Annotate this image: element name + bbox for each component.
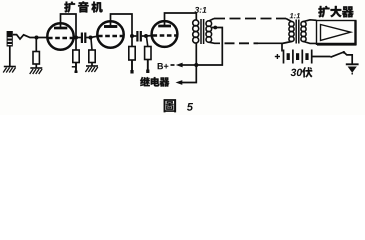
transformer T1 secondary winding xyxy=(206,21,212,42)
transformer T2 primary winding xyxy=(289,21,294,41)
wire T1 secondary bottom to line (start) xyxy=(209,42,220,43)
transformer T2 secondary winding xyxy=(301,21,306,41)
capacitor C1 coupling xyxy=(76,33,91,44)
ground (R3) xyxy=(85,66,98,72)
ground (input) xyxy=(3,67,16,73)
resistor R5 grid leak V3 xyxy=(145,37,151,73)
node T1 secondary tap xyxy=(213,26,217,30)
microphone input pickup xyxy=(7,31,13,47)
wire T2 secondary to amplifier box xyxy=(304,20,317,22)
node grid junction V3 xyxy=(144,34,148,38)
battery B1 cells xyxy=(284,50,312,64)
wire B+ node down to relay arrow xyxy=(182,65,196,83)
wire switch to ground xyxy=(344,53,352,64)
wire plate V1 to coupling node xyxy=(61,14,77,38)
resistor R1 grid leak V1 xyxy=(33,38,39,69)
resistor R3 grid leak V2 xyxy=(89,39,95,67)
node grid junction V2 xyxy=(89,36,93,40)
wire tap to B+ node xyxy=(196,28,222,66)
node B+ junction xyxy=(194,63,198,67)
label 30伏 xyxy=(291,67,313,77)
tube V1 triode xyxy=(47,23,73,49)
amplifier box U1 xyxy=(317,21,357,46)
dashed long line (top conductor) xyxy=(214,18,286,20)
wire input to grid of V1 xyxy=(13,35,48,39)
ground (earth, right) xyxy=(346,64,359,74)
switch S1 blade xyxy=(331,52,344,57)
tube V3 triode xyxy=(152,21,178,47)
caption 圖 5 xyxy=(164,99,193,112)
wire T1 secondary top to line (start) xyxy=(209,19,214,22)
label B+ xyxy=(158,63,169,69)
label 3:1 (T1 ratio) xyxy=(195,7,207,13)
wire to grid V3 xyxy=(146,35,153,38)
dashed long line (bottom conductor) xyxy=(225,42,259,44)
wire T1 primary bottom to B+ node xyxy=(195,43,197,65)
node plate V2 xyxy=(130,34,134,38)
ground (R1) xyxy=(30,68,43,74)
wire T2 primary bottom to battery + xyxy=(282,42,292,52)
arrow to B+ label xyxy=(182,64,196,66)
wire plate V2 to coupling node xyxy=(111,14,133,36)
resistor R2 plate load V1 xyxy=(72,38,79,74)
resistor R4 plate load V2 xyxy=(129,36,135,74)
wire microphone to ground xyxy=(9,47,11,67)
label 扩音机 (preamp unit) xyxy=(64,1,102,12)
battery B1 + sign xyxy=(275,54,280,59)
amplifier triangle symbol xyxy=(321,25,351,41)
wire battery to switch xyxy=(312,56,331,58)
label 1:1 (T2 ratio) xyxy=(290,13,300,18)
node plate V1 xyxy=(74,36,78,40)
tube V2 triode xyxy=(97,21,123,47)
transformer T1 core xyxy=(200,19,202,44)
capacitor C2 coupling xyxy=(132,31,146,42)
transformer T1 primary winding xyxy=(193,20,199,43)
label relay 继电器 xyxy=(140,77,169,87)
wire line top to T2 primary xyxy=(286,19,292,22)
node grid junction V1 xyxy=(35,36,39,40)
transformer T2 core xyxy=(295,20,297,44)
wire plate V3 to transformer T1 primary xyxy=(165,13,197,26)
wire to grid V2 xyxy=(91,36,98,37)
label 扩大器 xyxy=(318,6,353,18)
